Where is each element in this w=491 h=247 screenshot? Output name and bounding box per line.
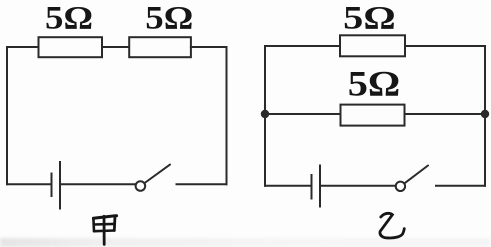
wire: bottom-left segment (circuit 乙) [265,185,311,187]
resistor R1 (5Ω, circuit 甲) [39,37,103,57]
wire: left vertical (circuit 乙) [264,46,266,186]
wire: right vertical (circuit 乙) [484,46,486,186]
node junction dot left (circuit 乙) [262,111,268,117]
label 乙 (circuit name, drawn glyph) [380,213,404,238]
svg-text:5Ω: 5Ω [145,1,193,37]
svg-text:5Ω: 5Ω [343,0,396,36]
wire: battery to switch (circuit 甲) [61,183,136,185]
wire: between R1 and R2 (circuit 甲) [102,46,129,48]
wire: battery to switch (circuit 乙) [321,185,396,187]
wire: middle-right segment (circuit 乙) [405,113,486,115]
resistor R4 (5Ω middle branch, circuit 乙) [341,105,405,126]
switch S2 (circuit 乙) [396,166,428,192]
switch S1 (circuit 甲) [136,165,170,191]
wire: left vertical (circuit 甲) [6,47,8,184]
label 甲 (circuit name, drawn glyph) [93,216,116,245]
node junction dot right (circuit 乙) [482,111,488,117]
wire: bottom-right segment after switch (circuit 乙) [436,185,485,187]
wire: top-left segment (circuit 乙) [265,45,340,47]
wire: bottom-right segment after switch (circuit 甲) [177,183,227,185]
resistor R2 (5Ω, circuit 甲) [129,37,191,57]
battery B2 (circuit 乙) [312,166,321,207]
wire: middle-left segment (circuit 乙) [265,113,341,115]
resistor R3 (5Ω top branch, circuit 乙) [340,35,405,56]
svg-text:5Ω: 5Ω [45,1,93,37]
wire: top-right segment (circuit 甲) [191,46,227,48]
svg-text:5Ω: 5Ω [348,64,401,104]
battery B1 (circuit 甲) [52,162,61,209]
wire: top-left segment (circuit 甲) [7,46,39,48]
wire: right vertical (circuit 甲) [226,47,228,184]
wire: top-right segment (circuit 乙) [405,45,485,47]
wire: bottom-left segment (circuit 甲) [7,183,50,185]
